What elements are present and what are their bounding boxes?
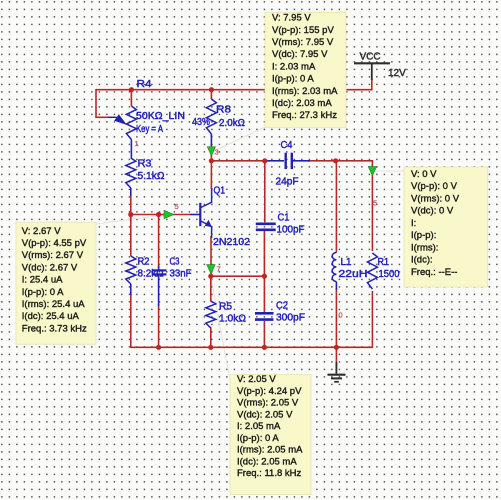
svg-text:24pF: 24pF <box>276 177 299 188</box>
probe arrow node 5 base <box>164 210 174 219</box>
svg-text:I(dc): 2.05 mA: I(dc): 2.05 mA <box>237 456 297 467</box>
svg-text:I(p-p): 0 A: I(p-p): 0 A <box>237 433 279 444</box>
resistor R8 <box>206 99 216 134</box>
wire node7 junction down to C2 <box>263 276 265 312</box>
wire base node horizontal <box>131 214 190 216</box>
wire pot R4 top lead <box>130 90 132 106</box>
svg-text:R8: R8 <box>216 105 231 116</box>
svg-text:C4: C4 <box>281 140 293 151</box>
measurement box top (collector probe) <box>265 12 346 127</box>
svg-text:R1: R1 <box>378 257 390 268</box>
svg-text:1500: 1500 <box>379 269 400 280</box>
svg-text:22uH: 22uH <box>339 269 368 280</box>
svg-text:I(dc):: I(dc): <box>411 255 433 266</box>
resistor R2 bottom lead <box>130 284 132 295</box>
svg-text:I: 2.03 mA: I: 2.03 mA <box>272 61 316 72</box>
junction gnd-C2 <box>262 345 267 350</box>
wire node 7 horizontal to C2 column <box>211 275 265 277</box>
svg-text:V: 7.95 V: V: 7.95 V <box>272 13 311 24</box>
wire collector node down to Q1 collector <box>210 161 212 189</box>
svg-text:33nF: 33nF <box>170 269 192 280</box>
wire left feedback loop horizontal to wiper <box>95 116 108 118</box>
resistor R2 <box>126 256 136 284</box>
svg-text:C2: C2 <box>276 301 288 312</box>
wire R3 bottom to base node <box>130 196 132 215</box>
junction collector <box>209 158 214 163</box>
svg-text:I(rms): 2.05 mA: I(rms): 2.05 mA <box>237 445 303 456</box>
svg-text:V: 2.05 V: V: 2.05 V <box>237 374 276 385</box>
svg-text:V(p-p): 155 pV: V(p-p): 155 pV <box>272 25 334 36</box>
junction R8 top <box>209 87 214 92</box>
svg-text:V(dc): 7.95 V: V(dc): 7.95 V <box>272 49 328 60</box>
resistor R5 <box>206 301 216 328</box>
VCC power symbol <box>354 62 390 64</box>
svg-text:5: 5 <box>175 202 179 211</box>
capacitor C3 plates <box>152 269 167 271</box>
measurement box right (tank probe) <box>404 167 487 287</box>
junction gnd-R5 <box>208 345 213 350</box>
svg-text:0: 0 <box>339 311 343 320</box>
svg-text:I(rms):: I(rms): <box>411 242 438 253</box>
potentiometer R4 zigzag <box>126 106 136 140</box>
probe arrow node 3 <box>207 147 215 156</box>
wire R1 bottom to ground rail <box>371 291 373 348</box>
svg-text:100pF: 100pF <box>277 225 305 236</box>
capacitor C2 plates <box>255 312 274 315</box>
potentiometer R4 wiper arrow <box>108 116 117 118</box>
wire R5 bottom to ground rail <box>210 328 212 349</box>
ground <box>328 362 346 382</box>
svg-text:I: 2.05 mA: I: 2.05 mA <box>237 421 281 432</box>
wire tank junction down to L1 <box>335 161 337 253</box>
junction base-left <box>128 212 133 217</box>
svg-text:V(p-p): 4.24 pV: V(p-p): 4.24 pV <box>237 386 302 397</box>
wire tank node down to R1 <box>371 160 373 251</box>
wire VCC stem lower <box>371 79 373 90</box>
svg-text:7: 7 <box>217 265 221 274</box>
svg-text:I: 25.4 uA: I: 25.4 uA <box>22 275 63 286</box>
capacitor C4 right lead <box>293 160 310 162</box>
resistor R8 bottom lead <box>210 134 212 146</box>
transistor Q1 collector <box>201 188 212 208</box>
svg-text:I(dc): 2.03 mA: I(dc): 2.03 mA <box>272 98 332 109</box>
svg-text:V(rms): 0 V: V(rms): 0 V <box>411 194 460 205</box>
wire C1 bottom to node 7 wire <box>263 231 265 276</box>
svg-text:L1: L1 <box>341 257 352 268</box>
wire R2 bottom to ground rail <box>130 294 132 348</box>
resistor R1 <box>367 253 377 289</box>
svg-text:3: 3 <box>215 148 219 157</box>
svg-text:R5: R5 <box>219 302 232 313</box>
svg-text:2N2102: 2N2102 <box>213 237 250 248</box>
wire left feedback loop vertical <box>95 89 97 117</box>
junction base-C3 <box>156 212 161 217</box>
svg-text:1.0kΩ: 1.0kΩ <box>219 314 247 325</box>
svg-text:I(p-p):: I(p-p): <box>411 230 436 241</box>
probe leader line to right box <box>377 170 404 172</box>
svg-text:V(p-p): 0 V: V(p-p): 0 V <box>411 181 458 192</box>
wire L1 bottom to ground rail <box>335 288 337 347</box>
svg-text:V(dc): 0 V: V(dc): 0 V <box>411 206 454 217</box>
svg-text:I(p-p): 0 A: I(p-p): 0 A <box>272 74 314 85</box>
wire R8 top lead <box>210 90 212 99</box>
probe leader line to top box <box>214 127 265 151</box>
wire base node junction down to C3 <box>158 215 160 269</box>
svg-text:300pF: 300pF <box>276 313 305 324</box>
measurement box bottom (emitter probe) <box>230 374 311 494</box>
inductor L1 <box>332 253 336 282</box>
svg-text:I(rms): 25.4 uA: I(rms): 25.4 uA <box>22 299 85 310</box>
inductor L1 bottom lead <box>335 282 337 291</box>
svg-text:C1: C1 <box>278 213 290 224</box>
junction pot top <box>129 87 134 92</box>
junction gnd-L1 <box>334 345 339 350</box>
wire ground stem red part <box>335 347 337 366</box>
svg-text:V(rms): 7.95 V: V(rms): 7.95 V <box>272 37 334 48</box>
transistor Q1 base bar <box>199 203 201 226</box>
svg-text:8.2kΩ: 8.2kΩ <box>138 269 165 280</box>
wire collector node horizontal to C4 <box>211 160 264 162</box>
svg-text:V(p-p): 4.55 pV: V(p-p): 4.55 pV <box>22 238 87 249</box>
svg-text:43%: 43% <box>192 117 210 128</box>
svg-text:Key = A: Key = A <box>136 124 163 135</box>
probe arrow node 7 <box>207 265 215 274</box>
svg-text:R4: R4 <box>137 79 152 90</box>
capacitor C4 left lead <box>265 160 284 162</box>
wire R8 bottom to collector node <box>210 144 212 161</box>
measurement box left (base probe) <box>16 222 96 344</box>
transistor Q1 base lead <box>190 214 200 216</box>
svg-text:5: 5 <box>373 199 377 208</box>
svg-text:C3: C3 <box>170 257 180 268</box>
svg-text:I(rms): 2.03 mA: I(rms): 2.03 mA <box>272 86 338 97</box>
svg-text:I(dc): 25.4 uA: I(dc): 25.4 uA <box>22 311 80 322</box>
probe leader line to left box <box>96 215 164 224</box>
svg-text:2.0kΩ: 2.0kΩ <box>219 118 246 129</box>
svg-text:12V: 12V <box>388 68 406 79</box>
wire collector junction down to C1 <box>264 161 266 223</box>
svg-text:R3: R3 <box>138 159 152 170</box>
svg-text:V(dc): 2.67 V: V(dc): 2.67 V <box>22 262 78 273</box>
probe leader line to bottom box <box>211 277 229 375</box>
resistor R3 bottom lead <box>130 188 132 196</box>
svg-text:I:: I: <box>411 218 416 229</box>
svg-text:50KΩ_LIN: 50KΩ_LIN <box>136 111 185 122</box>
probe arrow node 5 tank <box>368 167 376 176</box>
svg-text:5.1kΩ: 5.1kΩ <box>138 171 166 182</box>
capacitor C1 plates <box>256 223 276 226</box>
transistor Q1 emitter with arrow <box>201 221 212 238</box>
svg-text:Q1: Q1 <box>214 186 226 197</box>
junction gnd-C3 <box>156 345 161 350</box>
svg-text:V: 0 V: V: 0 V <box>411 169 437 180</box>
wire C3 bottom to ground rail <box>158 304 160 347</box>
capacitor C4 plates <box>285 153 287 169</box>
potentiometer R4 lead to R3 <box>130 140 132 159</box>
junction tank-L1 <box>333 158 338 163</box>
wire C2 bottom to ground rail <box>263 321 265 347</box>
capacitor C3 bottom lead <box>158 276 160 307</box>
wire C4 right lead to tank node <box>308 160 372 162</box>
wire bottom ground rail <box>131 346 373 348</box>
svg-text:V: 2.67 V: V: 2.67 V <box>22 226 61 237</box>
svg-text:1: 1 <box>135 139 139 148</box>
svg-text:Freq.: 27.3 kHz: Freq.: 27.3 kHz <box>272 110 337 121</box>
svg-text:V(dc): 2.05 V: V(dc): 2.05 V <box>237 409 293 420</box>
svg-text:Freq.: --E--: Freq.: --E-- <box>411 267 457 278</box>
svg-text:VCC: VCC <box>360 52 381 63</box>
svg-text:V(rms): 2.05 V: V(rms): 2.05 V <box>237 398 299 409</box>
resistor R3 <box>126 158 136 188</box>
wire node 7 down to R5 <box>210 276 212 301</box>
junction node7-C2 <box>262 274 267 279</box>
wire base node down to R2 <box>130 215 132 257</box>
svg-text:I(p-p): 0 A: I(p-p): 0 A <box>22 287 64 298</box>
capacitor C3 top lead <box>158 266 160 270</box>
junction C4-C1 <box>262 158 267 163</box>
svg-text:R2: R2 <box>138 257 150 268</box>
wire top rail VCC net <box>96 89 372 91</box>
svg-text:Freq.: 11.8 kHz: Freq.: 11.8 kHz <box>237 468 301 479</box>
svg-text:V(rms): 2.67 V: V(rms): 2.67 V <box>22 250 84 261</box>
wire emitter down to node 7 <box>210 236 212 276</box>
svg-text:Freq.: 3.73 kHz: Freq.: 3.73 kHz <box>22 323 87 334</box>
junction node7 <box>208 274 213 279</box>
